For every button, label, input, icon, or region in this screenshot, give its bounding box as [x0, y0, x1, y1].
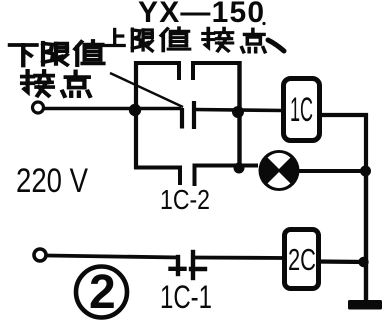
contact 1C-1 [171, 252, 206, 278]
node: bus/lamp junction [360, 166, 371, 177]
wire: lamp to right bus [297, 169, 366, 173]
wire: top branch left [134, 63, 179, 80]
svg-text:1C-2: 1C-2 [160, 184, 210, 215]
svg-text:220 V: 220 V [16, 162, 88, 200]
armature diagonal pointer [110, 73, 183, 107]
node: right junction bottom [234, 163, 245, 174]
svg-text:2: 2 [89, 266, 116, 319]
wire: bottom terminal to 1C-1 contact [47, 256, 180, 258]
wire: 1C-1 to 2C coil [193, 256, 285, 260]
wire: right vertical of contact block [237, 61, 241, 170]
figure number 2 [76, 267, 127, 318]
wire: left vertical of contact block [134, 61, 138, 169]
wire: top branch right (upper-limit contact) [193, 63, 241, 80]
label: lower-limit contact (xia xian zhi / jie dian) [10, 41, 104, 96]
node: bus/2C junction [358, 257, 368, 267]
wire: right bus vertical [364, 169, 368, 301]
wire: terminal to middle contact [44, 107, 181, 111]
terminal (top left) [33, 102, 44, 113]
svg-text:2C: 2C [288, 242, 316, 277]
wire: middle right segment to 1C coil [194, 110, 284, 111]
contact: middle (lower-limit) prongs [180, 108, 184, 129]
lamp (signal light) [259, 150, 300, 191]
label: upper-limit contact (shang xian zhi jie dian) [104, 28, 284, 52]
contact 1C-2 on bottom branch [134, 168, 180, 186]
terminal (bottom left) [34, 249, 46, 261]
svg-text:1C: 1C [290, 91, 313, 129]
wire: 1C coil to right bus [318, 115, 366, 171]
wire: 2C coil to right bus [317, 259, 366, 264]
relay coil 1C [284, 79, 320, 141]
node: left junction [129, 104, 141, 116]
svg-text:1C-1: 1C-1 [160, 279, 212, 315]
relay coil 2C [285, 230, 319, 289]
svg-text:YX—150: YX—150 [138, 0, 265, 29]
node: right junction middle [232, 106, 244, 118]
ground [348, 300, 382, 310]
